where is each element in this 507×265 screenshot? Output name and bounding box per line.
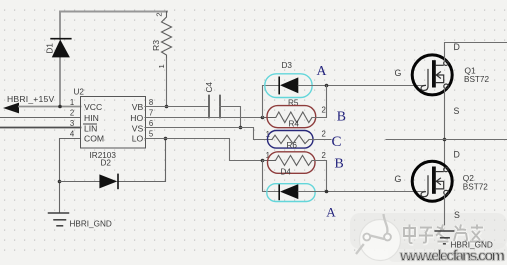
svg-text:A: A xyxy=(317,63,327,78)
svg-text:B: B xyxy=(335,155,344,170)
wire Q1 drain up and right xyxy=(445,43,507,62)
wire output node to right edge xyxy=(386,139,507,141)
wire VCC row xyxy=(19,106,81,108)
diode D3 xyxy=(279,61,298,94)
svg-text:D: D xyxy=(454,42,460,52)
wire Q2 source down to ground xyxy=(444,195,446,231)
svg-text:7: 7 xyxy=(149,108,153,117)
svg-text:B: B xyxy=(337,108,346,123)
watermark logo xyxy=(356,214,401,261)
IC U2 IR2103 gate driver xyxy=(70,88,154,161)
svg-text:6: 6 xyxy=(149,119,153,128)
wire R3 bottom lead xyxy=(166,58,168,107)
node junction D3/R5 right xyxy=(325,84,329,88)
node junction D1/VCC xyxy=(58,105,62,109)
highlight ellipse around D4 xyxy=(267,184,315,202)
wire VB row to C4 xyxy=(145,106,209,108)
node junction C4/VS xyxy=(239,126,243,130)
node junction R3/VB xyxy=(165,105,169,109)
svg-text:C: C xyxy=(332,134,342,150)
resistor R3 xyxy=(151,12,172,69)
highlight ellipse around D3 xyxy=(265,74,312,98)
svg-text:1: 1 xyxy=(157,64,166,68)
svg-text:1: 1 xyxy=(70,98,74,107)
wire R5 right lead up to D3 row xyxy=(312,86,327,118)
wire D1 column xyxy=(59,12,61,107)
svg-text:C4: C4 xyxy=(205,82,214,93)
svg-text:S: S xyxy=(454,106,460,116)
diode D1 xyxy=(46,39,71,58)
svg-text:3: 3 xyxy=(70,119,74,128)
svg-text:COM: COM xyxy=(84,134,104,144)
transistor Q1 BST72 xyxy=(395,42,490,116)
wire R4 right lead to node C xyxy=(309,139,331,141)
watermark haze xyxy=(350,213,507,262)
svg-text:Q2: Q2 xyxy=(463,173,475,183)
highlight ellipse around R4 xyxy=(268,131,314,149)
svg-text:www.elecfans.com: www.elecfans.com xyxy=(399,248,505,265)
svg-text:4: 4 xyxy=(70,129,75,138)
svg-text:D1: D1 xyxy=(46,43,55,54)
wire LIN row xyxy=(0,127,81,129)
ground HBRI_GND right xyxy=(434,231,454,244)
resistor R6 xyxy=(263,141,326,166)
watermark text xyxy=(405,225,485,244)
wire Q1 source to Q2 drain xyxy=(444,88,446,168)
wire D4 left branch xyxy=(263,161,280,192)
wire D3 left branch xyxy=(263,86,280,118)
svg-text:U2: U2 xyxy=(74,88,85,97)
node junction HO/D3/R5 xyxy=(261,116,265,120)
svg-text:D3: D3 xyxy=(282,61,293,70)
svg-text:R3: R3 xyxy=(151,40,161,51)
wire COM to ground column xyxy=(60,139,81,214)
wire VS row to R4 xyxy=(145,128,272,140)
wire D3 right to gate Q1 xyxy=(298,85,424,87)
wire D4 right to gate Q2 xyxy=(298,191,424,193)
svg-text:D4: D4 xyxy=(281,167,292,176)
resistor R4 xyxy=(266,120,326,144)
highlight ellipse around R5 xyxy=(267,106,316,128)
svg-text:HBRI_GND: HBRI_GND xyxy=(70,219,112,228)
wire HO row xyxy=(145,117,263,119)
svg-text:R6: R6 xyxy=(287,141,298,150)
svg-text:8: 8 xyxy=(149,98,153,107)
svg-text:LIN: LIN xyxy=(84,123,97,133)
svg-text:VS: VS xyxy=(132,123,144,133)
svg-text:IR2103: IR2103 xyxy=(90,151,117,160)
svg-text:R4: R4 xyxy=(289,120,300,129)
svg-text:2: 2 xyxy=(322,129,326,138)
svg-text:G: G xyxy=(395,174,402,184)
svg-text:A: A xyxy=(326,205,336,220)
ground HBRI_GND left xyxy=(49,213,69,226)
capacitor C4 xyxy=(205,82,220,118)
diode D2 xyxy=(99,159,118,189)
node junction D4/R6 right xyxy=(325,190,329,194)
svg-text:BST72: BST72 xyxy=(463,183,488,192)
node junction LO/D2 xyxy=(164,137,168,141)
wire R6 right lead down to D4 row xyxy=(312,161,327,192)
svg-text:S: S xyxy=(454,210,460,220)
svg-text:5: 5 xyxy=(149,129,154,138)
svg-text:HIN: HIN xyxy=(84,113,99,123)
svg-text:LO: LO xyxy=(132,134,144,144)
node junction COM/D2 xyxy=(58,180,62,184)
resistor R5 xyxy=(263,99,326,123)
highlight ellipse around R6 xyxy=(268,152,316,174)
node junction output xyxy=(443,138,447,142)
svg-text:HBRI_+15V: HBRI_+15V xyxy=(7,94,54,104)
diode D4 xyxy=(279,167,298,199)
port HBRI_+15V xyxy=(3,94,54,113)
transistor Q2 BST72 xyxy=(395,150,489,221)
svg-text:G: G xyxy=(395,68,402,78)
svg-text:D: D xyxy=(454,150,460,160)
wire D2 branch xyxy=(60,139,166,182)
wire top rail from D1 to R3 xyxy=(60,11,167,13)
svg-text:HBRI_GND: HBRI_GND xyxy=(451,240,493,249)
svg-text:2: 2 xyxy=(70,108,74,117)
svg-text:2: 2 xyxy=(155,12,164,16)
svg-text:VCC: VCC xyxy=(84,102,102,112)
wire HIN row xyxy=(0,117,81,119)
wire LO row to R6/D4 xyxy=(145,139,263,161)
node junction LO/R6/D4 xyxy=(261,159,265,163)
svg-text:VB: VB xyxy=(132,102,144,112)
wire C4 to VS row xyxy=(220,107,241,128)
svg-text:BST72: BST72 xyxy=(464,75,489,84)
svg-text:HO: HO xyxy=(130,113,143,123)
svg-text:2: 2 xyxy=(322,151,326,160)
svg-text:2: 2 xyxy=(322,106,326,115)
